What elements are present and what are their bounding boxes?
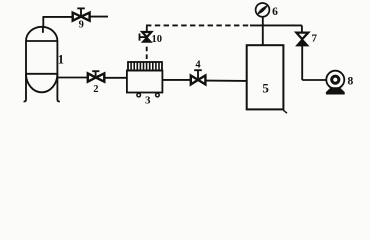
svg-text:2: 2 xyxy=(93,84,98,95)
svg-text:3: 3 xyxy=(145,95,151,107)
wire: valve 7 down and right to pump 8 xyxy=(302,46,326,80)
valve 7 (vertical globe valve) xyxy=(296,33,308,46)
tank 1 (vessel with domed top and dished bottom) xyxy=(24,27,60,102)
wire: junction to valve 7 top run xyxy=(250,25,302,32)
dashed stem: valve 10 down to filter 3 fins xyxy=(146,47,148,62)
svg-text:6: 6 xyxy=(272,6,278,18)
valve 10 (vertical globe valve, handle left) xyxy=(140,32,152,42)
wire: valve 2 to filter 3 xyxy=(103,77,127,79)
svg-text:10: 10 xyxy=(152,34,163,45)
svg-text:4: 4 xyxy=(195,60,201,71)
filter/heater 3 (box with finned top and wheels) xyxy=(127,62,162,97)
wire: filter 3 to valve 4 xyxy=(162,79,191,81)
valve 9 (globe valve, T-handle) xyxy=(73,8,90,20)
valve 2 (globe valve, T-handle) xyxy=(88,71,105,82)
svg-text:9: 9 xyxy=(79,20,84,31)
svg-text:7: 7 xyxy=(311,33,317,45)
svg-text:8: 8 xyxy=(348,76,354,88)
svg-text:5: 5 xyxy=(262,80,269,95)
wire: valve 4 to column 5 xyxy=(205,80,246,82)
valve 4 (globe valve, T-handle) xyxy=(191,70,206,84)
wire: column 5 top stem to gauge 6 xyxy=(262,17,264,45)
dashed control line: valve 10 up and across to junction xyxy=(146,25,250,32)
wire: tank outlet to valve 2 xyxy=(57,77,88,79)
scan artifact at column bottom-right xyxy=(283,110,287,113)
column 5 (rectangular vessel) xyxy=(247,45,284,109)
gauge 6 (pressure gauge with needle) xyxy=(256,3,270,17)
wire: valve 9 outlet stub xyxy=(90,16,108,18)
wire: vent line corner above tank to valve 9 xyxy=(43,17,73,28)
pump 8 (circle with rotor and base) xyxy=(326,71,344,94)
svg-text:1: 1 xyxy=(58,52,64,66)
